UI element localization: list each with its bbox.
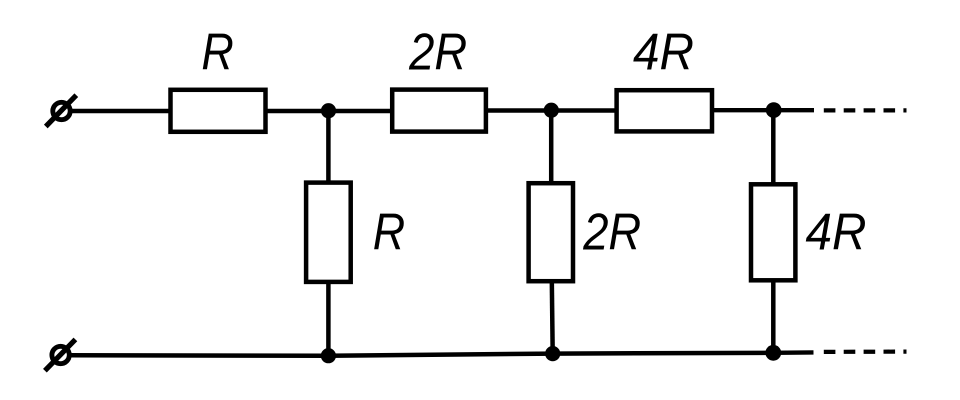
resistor R (series, horizontal) [171, 90, 266, 132]
svg-text:2R: 2R [408, 23, 467, 81]
node A junction dot (top) [321, 103, 336, 118]
node B' junction dot (bottom) [545, 346, 560, 361]
svg-text:2R: 2R [582, 204, 641, 262]
resistor 4R (shunt, vertical) [751, 184, 795, 280]
svg-text:R: R [373, 204, 405, 262]
wire: node A down to shunt resistor R [326, 111, 331, 184]
node C junction dot (top) [766, 102, 782, 118]
wire: shunt 4R down to bottom node C' [771, 279, 776, 353]
svg-text:4R: 4R [806, 204, 867, 262]
wire: node C' to ladder continuation (bottom rail) [773, 350, 813, 355]
svg-text:4R: 4R [633, 24, 694, 82]
resistor R (shunt, vertical) [306, 183, 351, 282]
resistor 2R (shunt, vertical) [529, 183, 573, 281]
terminal bottom-left (ø return) [45, 339, 76, 370]
wire: bottom terminal to node A' [69, 353, 328, 358]
dashed continuation of bottom rail [824, 350, 907, 354]
wire: node B' to node C' (bottom rail) [553, 351, 774, 356]
wire: 4R through node C to ladder continuation [710, 108, 814, 112]
node A' junction dot (bottom) [321, 348, 336, 363]
resistor 4R (series, horizontal) [617, 90, 712, 131]
wire: top terminal to resistor R [70, 109, 172, 114]
terminal top-left (ø input) [46, 95, 77, 126]
wire: 2R to 4R through node B [486, 108, 618, 113]
wire: R to 2R through node A [264, 109, 394, 114]
node B junction dot (top) [544, 103, 559, 118]
node C' junction dot (bottom) [765, 345, 781, 361]
svg-text:R: R [201, 23, 233, 81]
wire: node C down to shunt resistor 4R [771, 110, 776, 186]
dashed continuation of top rail [824, 108, 907, 112]
wire: shunt 2R down to bottom node B' [550, 280, 555, 354]
wire: node B down to shunt resistor 2R [549, 110, 554, 185]
wire: node A' to node B' (bottom rail) [328, 354, 552, 356]
resistor 2R (series, horizontal) [392, 90, 486, 132]
wire: shunt R down to bottom node A' [326, 281, 331, 356]
